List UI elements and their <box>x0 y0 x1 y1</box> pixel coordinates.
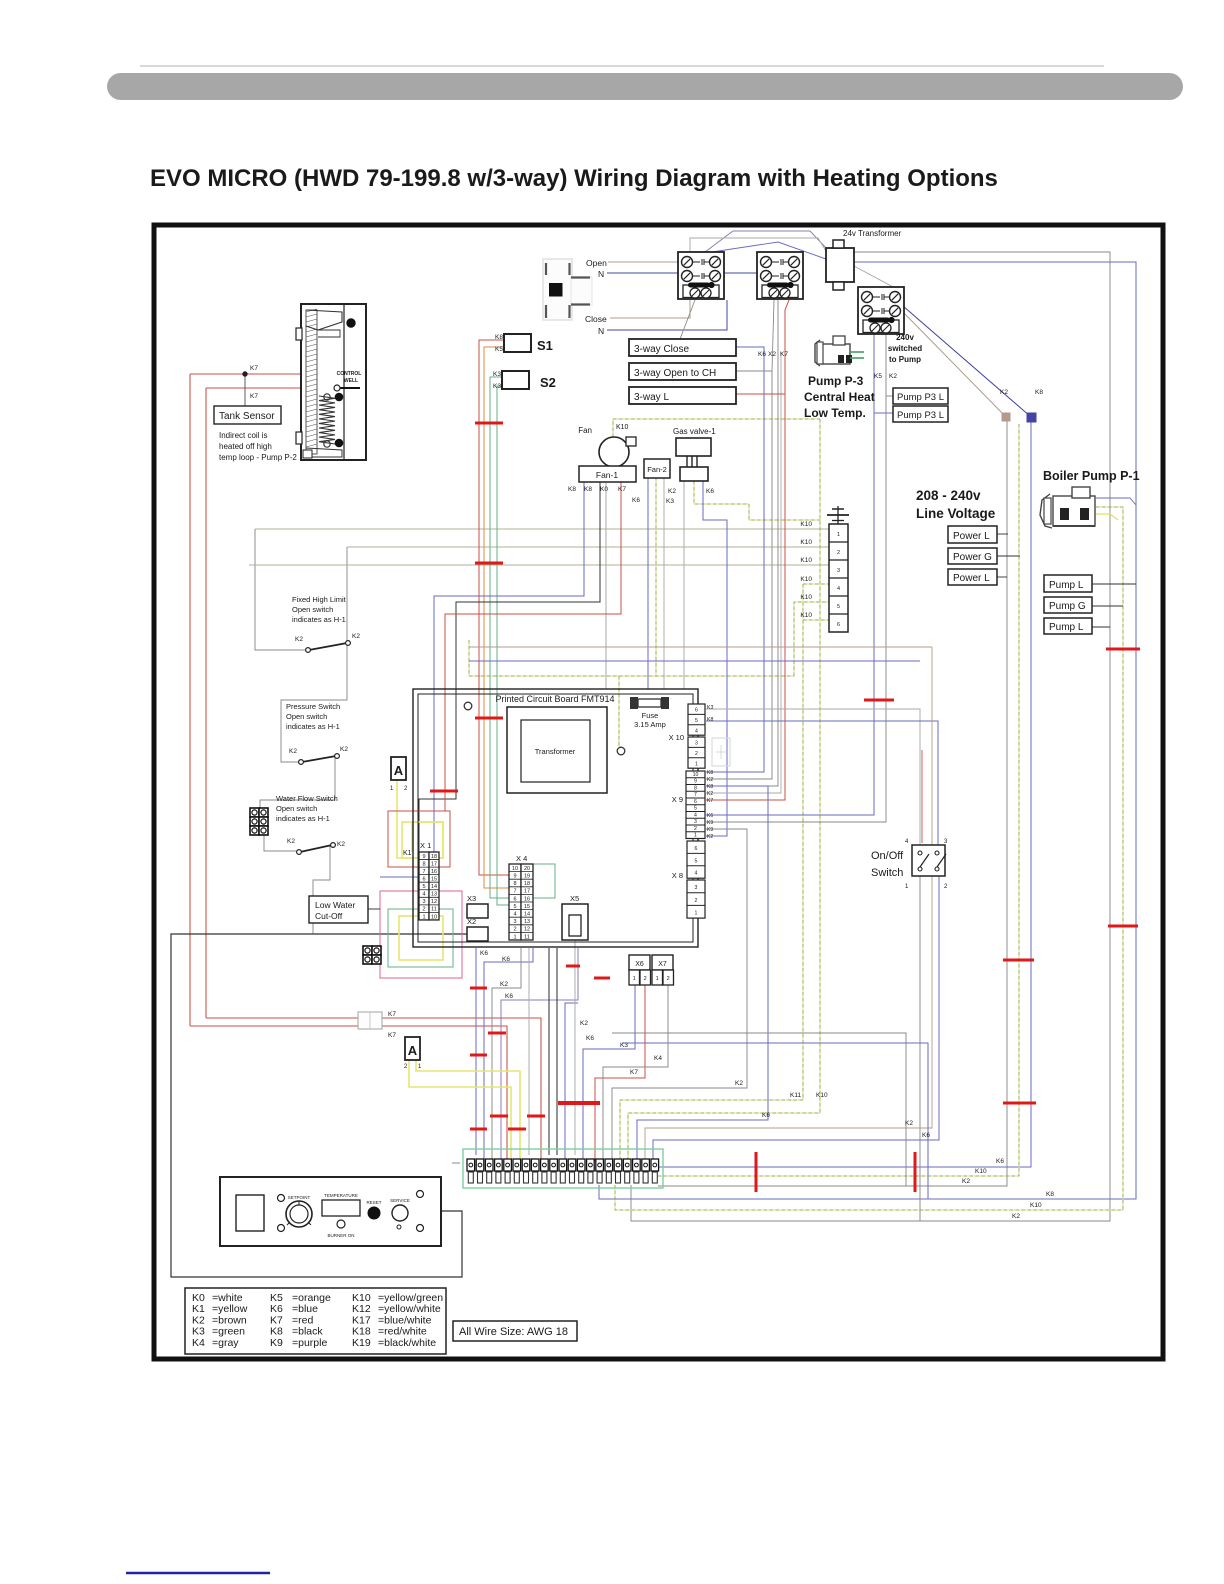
valve actuator V2 <box>757 252 803 299</box>
svg-text:X7: X7 <box>658 961 667 968</box>
svg-text:K2: K2 <box>889 373 897 380</box>
wire K10 dashed left bundle down to loop <box>658 424 1019 1176</box>
node crossing tick <box>470 987 487 990</box>
wire yellow A2 pin2 to strip <box>409 1060 511 1161</box>
power G box <box>948 548 997 564</box>
wire K8 blue transformer right run down <box>599 262 1136 1199</box>
svg-text:14: 14 <box>431 884 437 890</box>
wire N blue lower <box>607 300 727 330</box>
wire tank sensor lead <box>244 374 246 406</box>
svg-text:2: 2 <box>944 884 948 890</box>
svg-text:15: 15 <box>524 904 530 910</box>
svg-text:12: 12 <box>431 899 437 905</box>
svg-text:14: 14 <box>524 912 530 918</box>
boiler pump icon <box>1040 487 1095 528</box>
svg-text:Printed Circuit Board FMT914: Printed Circuit Board FMT914 <box>495 694 614 704</box>
svg-text:Pump L: Pump L <box>1049 580 1084 591</box>
svg-text:K4: K4 <box>654 1055 662 1062</box>
svg-text:16: 16 <box>524 896 530 902</box>
wire Power G lead <box>997 555 1020 557</box>
svg-text:Pump P3 L: Pump P3 L <box>897 410 944 421</box>
svg-text:=yellow: =yellow <box>212 1303 248 1315</box>
wire gray valve2 to X9 pin8 <box>706 300 778 786</box>
svg-text:4: 4 <box>905 839 909 845</box>
svg-text:4: 4 <box>695 728 698 734</box>
svg-text:X 4: X 4 <box>516 854 527 863</box>
svg-text:=brown: =brown <box>212 1314 247 1326</box>
svg-text:K7: K7 <box>630 1069 638 1076</box>
fan-2 box <box>644 459 670 478</box>
svg-text:6: 6 <box>694 799 697 805</box>
3-way Close box <box>629 339 736 356</box>
wire yellow loop below X1 <box>399 916 443 960</box>
svg-text:K5: K5 <box>874 373 882 380</box>
svg-text:K10: K10 <box>800 521 812 528</box>
node crossing tick <box>1003 1102 1036 1105</box>
wire K10 dashed fan-2 drop <box>655 477 657 676</box>
svg-text:Pump P3 L: Pump P3 L <box>897 392 944 403</box>
wire brown long run to strip <box>469 646 932 648</box>
svg-text:K2: K2 <box>962 1178 970 1185</box>
wire pink loop below X1 <box>380 891 462 978</box>
svg-text:1: 1 <box>513 934 516 940</box>
svg-text:1: 1 <box>390 786 394 792</box>
svg-text:1: 1 <box>837 532 840 538</box>
terminal block pair upper <box>250 808 268 835</box>
svg-text:K3: K3 <box>666 498 674 505</box>
svg-text:K5: K5 <box>495 346 503 353</box>
svg-text:=orange: =orange <box>292 1292 331 1304</box>
svg-text:X2: X2 <box>768 351 776 358</box>
node crossing tick <box>475 562 503 565</box>
svg-text:10: 10 <box>431 914 437 920</box>
svg-text:K8: K8 <box>1046 1191 1054 1198</box>
PCB mounting hole <box>464 702 472 710</box>
svg-text:=white: =white <box>212 1292 243 1304</box>
wire K10 dashed vertical right of gas valve going to strip <box>628 419 820 1161</box>
svg-text:8: 8 <box>694 785 697 791</box>
svg-text:K4: K4 <box>192 1337 205 1349</box>
wire K10 dashed gas valve-2 tail <box>694 481 820 520</box>
wire K8 black from Fan-1 <box>419 482 600 852</box>
svg-text:CONTROL: CONTROL <box>337 371 362 377</box>
svg-text:K3: K3 <box>493 383 501 390</box>
svg-text:SETPOINT: SETPOINT <box>288 1195 311 1200</box>
svg-text:K1: K1 <box>192 1303 205 1315</box>
svg-text:5: 5 <box>695 718 698 724</box>
svg-text:2: 2 <box>694 826 697 832</box>
transformer on PCB <box>507 707 607 793</box>
wire boiler pump leads <box>1096 498 1136 505</box>
svg-text:temp loop - Pump P-2: temp loop - Pump P-2 <box>219 453 297 462</box>
svg-text:Line Voltage: Line Voltage <box>916 506 996 521</box>
svg-text:Gas valve-1: Gas valve-1 <box>673 427 716 436</box>
svg-text:Fuse: Fuse <box>642 711 659 720</box>
svg-text:Open: Open <box>586 258 607 268</box>
svg-text:to Pump: to Pump <box>889 355 921 364</box>
svg-text:Open switch: Open switch <box>276 804 317 813</box>
node blue dot <box>1027 413 1036 422</box>
svg-text:8: 8 <box>422 861 425 867</box>
svg-text:Fan: Fan <box>578 426 592 435</box>
svg-text:3-way Open to CH: 3-way Open to CH <box>634 368 716 379</box>
svg-text:9: 9 <box>513 874 516 880</box>
wire diagonal brown valve3 to dot <box>903 312 1006 417</box>
wire Pump L lead <box>1092 583 1136 585</box>
switch S high-limit <box>295 633 360 652</box>
svg-text:Fixed High Limit: Fixed High Limit <box>292 595 347 604</box>
wire pressure switch right lead <box>260 757 335 814</box>
wire water-flow right lead down to black run <box>313 846 330 934</box>
svg-text:K8: K8 <box>707 784 713 790</box>
valve body T symbol <box>543 259 592 320</box>
wire blue diagonal valve1 to transformer <box>712 242 826 259</box>
svg-text:=gray: =gray <box>212 1337 239 1349</box>
power L box 2 <box>948 569 997 585</box>
svg-text:K2: K2 <box>905 1120 913 1127</box>
svg-text:K10: K10 <box>800 612 812 619</box>
wire blue mid to strip <box>565 1003 578 1161</box>
wire K8 blue X9 pin8 loop to strip <box>637 786 768 1161</box>
terminal strip surround <box>463 1149 663 1188</box>
svg-text:K18: K18 <box>352 1326 371 1338</box>
svg-text:K6: K6 <box>706 488 714 495</box>
svg-text:X2: X2 <box>467 917 476 926</box>
pump P-3 icon <box>815 336 864 366</box>
ghost connector <box>712 738 730 766</box>
wire K10 dashed ground cell 4 link <box>803 583 829 585</box>
pump P3 L box 1 <box>893 388 948 404</box>
ground symbol <box>827 506 849 524</box>
svg-text:K9: K9 <box>707 827 713 833</box>
svg-text:=black: =black <box>292 1326 323 1338</box>
tank indirect coil <box>296 304 366 460</box>
svg-text:7: 7 <box>694 792 697 798</box>
svg-text:K6: K6 <box>922 1132 930 1139</box>
pump L box <box>1044 575 1092 592</box>
node crossing tick <box>1106 648 1140 651</box>
wire K8 black 2 to strip <box>556 948 558 1155</box>
svg-text:K2: K2 <box>668 488 676 495</box>
svg-text:=green: =green <box>212 1326 245 1338</box>
wire yellow A2 pin1 to strip <box>416 1060 520 1161</box>
svg-text:2: 2 <box>695 751 698 757</box>
svg-text:K8: K8 <box>584 486 592 493</box>
svg-text:X5: X5 <box>570 894 579 903</box>
gas valve body <box>676 438 711 456</box>
wire Pump L2 lead <box>1092 626 1110 628</box>
svg-text:6: 6 <box>837 622 840 628</box>
control panel <box>220 1177 441 1246</box>
svg-text:K2: K2 <box>735 1080 743 1087</box>
svg-text:X 1: X 1 <box>420 841 431 850</box>
svg-text:K17: K17 <box>352 1314 371 1326</box>
svg-text:24v Transformer: 24v Transformer <box>843 229 902 238</box>
svg-text:6: 6 <box>513 896 516 902</box>
wire K3 blue X6 pin1 to strip <box>583 984 635 1161</box>
wire yellow A1 loop to X1 <box>397 780 443 858</box>
wire gray top run to transformer <box>690 238 826 252</box>
node crossing tick <box>470 1128 487 1131</box>
legend text <box>192 1292 443 1349</box>
svg-text:15: 15 <box>431 877 437 883</box>
svg-text:8: 8 <box>513 881 516 887</box>
svg-text:K10: K10 <box>1030 1202 1042 1209</box>
svg-text:3-way L: 3-way L <box>634 392 669 403</box>
svg-text:1: 1 <box>418 1064 422 1070</box>
svg-text:K10: K10 <box>800 576 812 583</box>
main diagram border <box>154 225 1163 1359</box>
wire valve2 screw drop <box>772 300 774 371</box>
svg-text:3: 3 <box>422 899 425 905</box>
svg-text:1: 1 <box>905 884 909 890</box>
wire blue valve3 to Pump P3 L and X9 pin4 <box>706 332 874 815</box>
node crossing tick <box>1003 959 1034 962</box>
PCB test point <box>617 747 625 755</box>
svg-text:K10: K10 <box>975 1168 987 1175</box>
svg-text:K6: K6 <box>505 993 513 1000</box>
wire K8 blue from Fan-1 <box>380 482 584 877</box>
svg-text:Switch: Switch <box>871 867 903 879</box>
svg-text:1: 1 <box>633 976 636 982</box>
wire yellow loop around X1 <box>402 822 443 858</box>
svg-text:K7: K7 <box>707 798 713 804</box>
svg-text:indicates as H-1: indicates as H-1 <box>276 814 330 823</box>
svg-text:K8: K8 <box>1035 389 1043 396</box>
svg-text:1: 1 <box>695 761 698 767</box>
wire K7 red horizontals to tank control well <box>190 374 336 387</box>
svg-text:K10: K10 <box>352 1292 371 1304</box>
reference A1 <box>391 757 406 780</box>
svg-text:13: 13 <box>431 892 437 898</box>
svg-text:K7: K7 <box>270 1314 283 1326</box>
wire K10 ground line 3 <box>249 564 829 566</box>
wire K2 gray transformer to right edge down to loop <box>631 252 1110 1221</box>
ground terminal block <box>829 524 848 632</box>
svg-text:S2: S2 <box>540 375 556 390</box>
svg-text:6: 6 <box>695 846 698 852</box>
svg-text:4: 4 <box>837 586 840 592</box>
wire K3 green 2 from S2 <box>497 386 509 905</box>
svg-text:=yellow/green: =yellow/green <box>378 1292 443 1304</box>
svg-text:SERVICE: SERVICE <box>390 1198 410 1203</box>
svg-text:19: 19 <box>524 874 530 880</box>
svg-text:K2: K2 <box>707 777 713 783</box>
svg-text:3: 3 <box>513 919 516 925</box>
svg-text:K3: K3 <box>620 1042 628 1049</box>
wire K2 gray 3-way Open to X9 pin9 <box>706 371 772 779</box>
3-way L box <box>629 387 736 404</box>
wire K3 gray X10 to switch pin4 <box>706 709 920 845</box>
svg-text:K2: K2 <box>289 748 297 755</box>
svg-text:1: 1 <box>695 911 698 917</box>
reference A2 <box>405 1037 420 1060</box>
node crossing tick <box>488 1032 506 1035</box>
svg-text:2: 2 <box>837 550 840 556</box>
wire K7 red left vertical <box>189 374 191 1026</box>
svg-text:K19: K19 <box>352 1337 371 1349</box>
svg-text:heated off high: heated off high <box>219 442 272 451</box>
pump L box 2 <box>1044 618 1092 634</box>
node crossing tick <box>430 790 458 793</box>
svg-text:10: 10 <box>693 772 699 778</box>
svg-text:9: 9 <box>694 779 697 785</box>
wire K6 blue from gas valve to X9 pin1 <box>703 481 727 836</box>
wire K10 dashed mid vertical to strip <box>620 584 803 1161</box>
svg-text:X3: X3 <box>467 894 476 903</box>
svg-text:6: 6 <box>422 877 425 883</box>
tank sensor box <box>214 406 281 424</box>
svg-text:K7: K7 <box>780 351 788 358</box>
svg-text:=red/white: =red/white <box>378 1326 427 1338</box>
node crossing tick <box>490 1115 508 1118</box>
svg-text:K6: K6 <box>758 351 766 358</box>
svg-text:switched: switched <box>888 344 922 353</box>
svg-text:K6: K6 <box>707 813 713 819</box>
svg-text:K0: K0 <box>192 1292 205 1304</box>
svg-text:7: 7 <box>513 889 516 895</box>
node crossing tick <box>527 1115 545 1118</box>
svg-text:2: 2 <box>644 976 647 982</box>
svg-text:4: 4 <box>695 871 698 877</box>
svg-text:K2: K2 <box>707 791 713 797</box>
svg-text:=yellow/white: =yellow/white <box>378 1303 441 1315</box>
svg-text:K6: K6 <box>586 1035 594 1042</box>
svg-text:K7: K7 <box>388 1011 396 1018</box>
wire transformer to valve3 <box>854 266 895 288</box>
svg-text:12: 12 <box>524 927 530 933</box>
pump P3 L box 2 <box>893 406 948 422</box>
wire K2 gray to strip <box>492 948 521 1161</box>
svg-text:Water Flow Switch: Water Flow Switch <box>276 794 338 803</box>
AWG box <box>453 1321 577 1341</box>
svg-text:5: 5 <box>694 806 697 812</box>
svg-text:K3: K3 <box>707 705 713 711</box>
svg-text:K3: K3 <box>192 1326 205 1338</box>
svg-text:K2: K2 <box>500 981 508 988</box>
svg-text:K6: K6 <box>632 497 640 504</box>
PCB FMT914 outline <box>413 689 698 947</box>
wire Power L2 lead <box>997 576 1007 578</box>
footer link line <box>126 1572 270 1575</box>
svg-text:Pressure Switch: Pressure Switch <box>286 702 340 711</box>
wire diagonal blue valve3 to dot <box>903 306 1031 417</box>
svg-text:2: 2 <box>404 1064 408 1070</box>
svg-text:Fan-2: Fan-2 <box>647 465 667 474</box>
svg-text:1: 1 <box>656 976 659 982</box>
svg-text:K10: K10 <box>816 1092 828 1099</box>
svg-text:K2: K2 <box>707 834 713 840</box>
wire K10 dashed into PCB test point <box>618 676 620 747</box>
svg-text:7: 7 <box>422 869 425 875</box>
svg-text:Central Heat: Central Heat <box>804 390 875 404</box>
wire K2 gray mid run to loop <box>612 1033 906 1186</box>
fuse <box>630 697 669 709</box>
svg-text:K2: K2 <box>295 636 303 643</box>
svg-text:K2: K2 <box>352 633 360 640</box>
svg-text:K2: K2 <box>192 1314 205 1326</box>
wire low water lead <box>368 908 380 910</box>
terminal strip <box>467 1159 659 1183</box>
wire K4 gray X7 pin2 to strip <box>603 984 668 1161</box>
svg-text:X 9: X 9 <box>672 795 683 804</box>
svg-text:K11: K11 <box>790 1092 801 1099</box>
svg-text:K6: K6 <box>270 1303 283 1315</box>
svg-text:Power L: Power L <box>953 573 990 584</box>
node crossing tick <box>508 1128 526 1131</box>
svg-text:A: A <box>408 1043 418 1058</box>
wire blue long run <box>469 660 920 662</box>
svg-text:K6: K6 <box>502 956 510 963</box>
node tick vertical at strip <box>755 1152 758 1192</box>
wire K8 blue left bundle down to loop <box>658 420 1031 1167</box>
svg-text:Transformer: Transformer <box>535 747 576 756</box>
wire K2 gray left bundle down to loop <box>658 420 1007 1186</box>
3-way Open box <box>629 363 736 380</box>
svg-text:Open switch: Open switch <box>286 712 327 721</box>
svg-text:17: 17 <box>524 889 530 895</box>
svg-text:Tank Sensor: Tank Sensor <box>219 411 275 422</box>
wire K6 purple to strip <box>501 948 578 1161</box>
svg-text:K2: K2 <box>1012 1213 1020 1220</box>
wire N blue <box>607 272 757 274</box>
gas valve lower <box>680 467 708 481</box>
svg-text:3-way Close: 3-way Close <box>634 344 689 355</box>
svg-text:5: 5 <box>695 858 698 864</box>
svg-text:indicates as H-1: indicates as H-1 <box>286 722 340 731</box>
wire purple top run to transformer <box>705 231 827 252</box>
svg-text:K2: K2 <box>580 1020 588 1027</box>
wire Power L lead <box>997 533 1008 535</box>
wire K10 ground line 2 <box>347 546 829 548</box>
svg-text:2: 2 <box>404 786 408 792</box>
svg-text:208 - 240v: 208 - 240v <box>916 488 981 503</box>
svg-text:9: 9 <box>422 854 425 860</box>
svg-text:Open switch: Open switch <box>292 605 333 614</box>
wire blue switch pin2 down to strip loop <box>653 876 939 1161</box>
svg-text:2: 2 <box>513 927 516 933</box>
wire K10 ground line 1 <box>255 528 829 530</box>
wire gray switch pin1 down <box>919 876 921 1221</box>
svg-text:K8: K8 <box>270 1326 283 1338</box>
svg-text:K2: K2 <box>287 838 295 845</box>
svg-text:Low Temp.: Low Temp. <box>804 406 866 420</box>
wire gray X5 to strip <box>574 940 576 1155</box>
wire K10 dashed horizontal above PCB <box>469 640 794 676</box>
node crossing tick <box>566 965 580 968</box>
svg-text:K7: K7 <box>618 486 626 493</box>
svg-text:16: 16 <box>431 869 437 875</box>
wire red loop around X1 <box>388 811 450 867</box>
svg-text:=black/white: =black/white <box>378 1337 436 1349</box>
S2 box <box>502 371 529 389</box>
svg-text:10: 10 <box>512 866 518 872</box>
svg-text:K10: K10 <box>800 557 812 564</box>
svg-text:18: 18 <box>431 854 437 860</box>
svg-text:=red: =red <box>292 1314 313 1326</box>
svg-text:17: 17 <box>431 861 437 867</box>
wire K7 red 3-way L to X9 pin6 <box>706 300 789 800</box>
wire K6 blue 2 to strip <box>484 948 533 1161</box>
wire K8 blue X10 to switch pin3 <box>706 721 938 845</box>
svg-text:K8: K8 <box>495 334 503 341</box>
node tick vertical at strip 2 <box>914 1152 917 1192</box>
svg-text:=blue: =blue <box>292 1303 318 1315</box>
svg-text:3: 3 <box>837 568 840 574</box>
svg-text:Pump P-3: Pump P-3 <box>808 374 864 388</box>
node K7 junction <box>243 372 247 376</box>
svg-text:2: 2 <box>695 898 698 904</box>
